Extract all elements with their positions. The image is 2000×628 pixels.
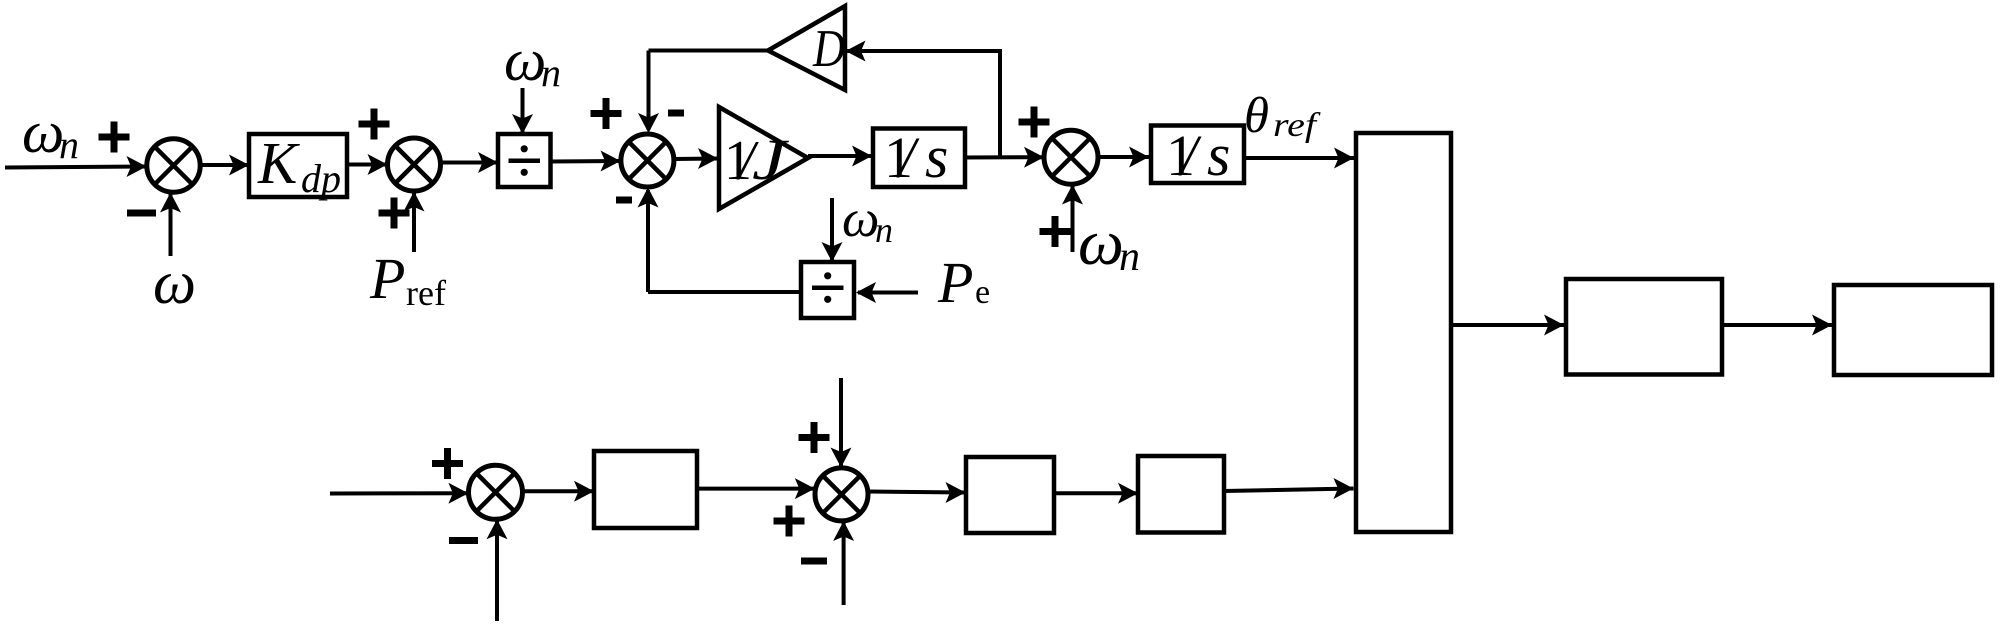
block Kdp: [249, 134, 347, 197]
wire S4 to integrator2: [1098, 147, 1149, 168]
wire input omega_n: [5, 156, 147, 177]
wire input into S5 from below: [487, 519, 508, 621]
divide symbol 2: [812, 272, 844, 303]
wire omega_n into divider1: [512, 88, 533, 134]
svg-text:e: e: [975, 274, 990, 311]
svg-text:K: K: [257, 130, 300, 196]
summing junction S4: [1044, 130, 1098, 184]
minus sign at S6 lower input: [801, 558, 827, 565]
label D: [812, 20, 845, 78]
block tall rect: [1356, 133, 1451, 532]
svg-text:n: n: [1119, 234, 1140, 280]
svg-text:P: P: [937, 250, 973, 315]
svg-text:n: n: [541, 50, 561, 95]
gain triangle 1/J: [719, 107, 808, 209]
minus sign at S5 lower input: [449, 537, 478, 544]
wire S2 to divider1: [441, 152, 499, 173]
wire into S6 from below: [833, 521, 854, 605]
label 1/s block2: [1166, 122, 1230, 188]
block divider1: [498, 134, 551, 187]
wire integrator1 to S4 with node: [963, 147, 1044, 168]
wire Pref into S2: [404, 192, 425, 253]
wire omega_n into divider2: [822, 198, 843, 262]
block B3: [1138, 456, 1224, 533]
block mid right: [1566, 279, 1722, 375]
minus sign at S3 lower input: [616, 197, 632, 204]
block divider2: [801, 262, 854, 318]
wire feedback divider2 to S3 bottom: [638, 188, 802, 293]
plus sign at S5 left input: [432, 448, 463, 479]
plus sign at S6 left input: [774, 506, 805, 537]
block B1: [594, 451, 697, 528]
label Kdp: [257, 130, 341, 201]
divide symbol 1: [509, 145, 541, 176]
plus sign at S1 input: [99, 122, 130, 153]
wire B3 to tall rect: [1224, 478, 1354, 499]
summing junction S1: [147, 139, 200, 192]
minus sign at S1 lower input: [127, 210, 156, 217]
summing junction S6: [815, 468, 868, 521]
block B2: [966, 457, 1054, 533]
wire input bottom row: [330, 483, 468, 504]
label Pe: [937, 250, 990, 315]
plus sign at S2 lower input: [379, 198, 410, 229]
wire mid block to right block: [1722, 315, 1832, 336]
svg-text:n: n: [59, 122, 79, 167]
wire integrator2 to PWM block: [1243, 148, 1354, 169]
svg-text:ω: ω: [153, 250, 196, 317]
block integrator1 1/s: [873, 129, 965, 188]
label omega_n above divider1: [504, 27, 561, 95]
svg-text:P: P: [369, 246, 405, 311]
wire feedback node up to D line: [846, 49, 1001, 158]
wire divider1 to S3: [551, 151, 621, 172]
label 1/J: [724, 127, 790, 192]
wire S1 to Kdp: [200, 155, 249, 176]
wire omega into S1: [160, 193, 181, 257]
wire 1/J to integrator1: [808, 146, 872, 167]
wire Kdp to S2: [347, 154, 388, 175]
plus sign at S6 top input: [799, 422, 830, 453]
label omega_n above divider2: [842, 190, 893, 250]
summing junction S5: [469, 465, 523, 519]
minus sign at S3 top input: [668, 110, 684, 117]
wire B2 to block B3: [1054, 483, 1138, 504]
svg-text:D: D: [812, 20, 845, 78]
summing junction S2: [388, 138, 441, 191]
plus sign at S2 left input: [359, 109, 390, 140]
wire omega_n into S4: [1062, 185, 1083, 253]
svg-text:s: s: [925, 124, 948, 190]
svg-text:n: n: [875, 210, 893, 250]
svg-text:θ: θ: [1244, 88, 1269, 144]
plus sign at S4 left input: [1019, 107, 1050, 138]
label omega_n below S4: [1078, 207, 1140, 280]
svg-text:ω: ω: [842, 190, 879, 248]
svg-text:J: J: [752, 127, 790, 192]
wire S5 to block B1: [523, 481, 595, 502]
arrow into D input: [846, 41, 866, 62]
wire S6 to block B2: [868, 482, 966, 503]
label theta_ref: [1244, 88, 1321, 144]
summing junction S3: [621, 134, 674, 187]
svg-text:ref: ref: [406, 273, 446, 313]
wire S3 to 1/J: [674, 148, 718, 169]
gain triangle D: [768, 6, 845, 90]
wire tall rect to mid block: [1451, 315, 1564, 336]
wire D output to S3 top: [638, 51, 768, 134]
svg-text:ω: ω: [1078, 207, 1124, 279]
label Pref: [369, 246, 446, 313]
block integrator2 1/s: [1151, 126, 1244, 184]
svg-text:dp: dp: [301, 156, 341, 201]
label 1/s block1: [884, 124, 948, 190]
wire Pe into divider2: [856, 282, 918, 303]
plus sign at S4 lower input: [1040, 216, 1071, 247]
label omega feedback: [153, 250, 196, 317]
block far right: [1834, 285, 1992, 375]
svg-text:ref: ref: [1273, 107, 1321, 144]
svg-text:s: s: [1207, 122, 1230, 188]
plus sign at S3 left input: [591, 98, 622, 129]
label omega_n input: [22, 99, 79, 167]
wire B1 to S6: [697, 478, 815, 499]
wire into S6 from above: [831, 378, 852, 468]
